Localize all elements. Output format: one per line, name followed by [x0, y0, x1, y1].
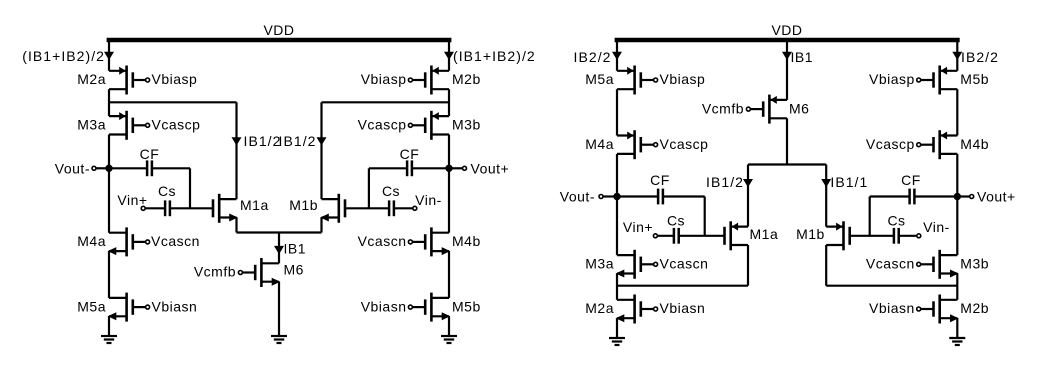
svg-text:M6: M6: [789, 100, 809, 116]
svg-text:M1b: M1b: [289, 197, 318, 213]
svg-text:Vcascp: Vcascp: [358, 117, 407, 133]
svg-text:Vbiasp: Vbiasp: [869, 71, 915, 87]
svg-text:(IB1+IB2)/2: (IB1+IB2)/2: [453, 48, 536, 64]
svg-text:CF: CF: [400, 146, 420, 162]
svg-text:M6: M6: [284, 261, 304, 277]
svg-text:IB1/2: IB1/2: [279, 133, 317, 149]
svg-text:M4a: M4a: [585, 136, 614, 152]
svg-text:Vcascp: Vcascp: [152, 117, 201, 133]
svg-text:M1a: M1a: [240, 197, 269, 213]
svg-text:IB1/2: IB1/2: [706, 174, 744, 190]
svg-text:Cs: Cs: [667, 212, 685, 228]
svg-text:CF: CF: [650, 172, 670, 188]
svg-text:M4a: M4a: [77, 233, 106, 249]
svg-text:Vout+: Vout+: [471, 160, 510, 176]
svg-text:Cs: Cs: [158, 183, 176, 199]
svg-text:Vcascp: Vcascp: [660, 136, 709, 152]
svg-text:Vbiasn: Vbiasn: [361, 298, 407, 314]
svg-text:M1b: M1b: [796, 226, 825, 242]
svg-text:Vcmfb: Vcmfb: [702, 100, 744, 116]
svg-text:Vin+: Vin+: [623, 219, 653, 235]
svg-text:Vout-: Vout-: [560, 189, 595, 205]
svg-text:IB1: IB1: [791, 49, 814, 65]
svg-text:Vcascn: Vcascn: [866, 256, 915, 272]
svg-text:Vbiasn: Vbiasn: [869, 300, 915, 316]
svg-text:Vin-: Vin-: [415, 192, 442, 208]
svg-text:M5b: M5b: [960, 71, 989, 87]
svg-text:M3b: M3b: [960, 256, 989, 272]
svg-text:M5a: M5a: [585, 71, 614, 87]
svg-text:M5a: M5a: [77, 298, 106, 314]
svg-text:Vin-: Vin-: [923, 219, 950, 235]
svg-text:M4b: M4b: [452, 233, 481, 249]
svg-text:Cs: Cs: [887, 212, 905, 228]
svg-text:M5b: M5b: [452, 298, 481, 314]
svg-text:Cs: Cs: [382, 183, 400, 199]
svg-text:M2b: M2b: [452, 71, 481, 87]
svg-text:M1a: M1a: [750, 226, 779, 242]
svg-text:Vbiasp: Vbiasp: [660, 71, 706, 87]
svg-text:M2a: M2a: [77, 71, 106, 87]
svg-text:IB2/2: IB2/2: [574, 49, 612, 65]
svg-text:M3b: M3b: [452, 117, 481, 133]
svg-text:M3a: M3a: [585, 256, 614, 272]
svg-text:VDD: VDD: [263, 22, 294, 38]
svg-text:Vin+: Vin+: [117, 192, 147, 208]
svg-text:(IB1+IB2)/2: (IB1+IB2)/2: [22, 48, 105, 64]
svg-text:Vout+: Vout+: [977, 189, 1016, 205]
svg-text:Vcascn: Vcascn: [660, 256, 709, 272]
svg-text:M3a: M3a: [77, 117, 106, 133]
svg-text:Vcmfb: Vcmfb: [194, 264, 236, 280]
svg-text:IB2/2: IB2/2: [961, 49, 999, 65]
svg-text:Vbiasp: Vbiasp: [152, 71, 198, 87]
svg-text:Vcascn: Vcascn: [358, 233, 407, 249]
svg-text:Vbiasp: Vbiasp: [361, 71, 407, 87]
svg-text:IB1: IB1: [284, 241, 307, 257]
svg-text:CF: CF: [901, 172, 921, 188]
svg-text:M2a: M2a: [585, 300, 614, 316]
svg-text:Vbiasn: Vbiasn: [660, 300, 706, 316]
svg-text:Vout-: Vout-: [55, 160, 90, 176]
svg-text:Vcascp: Vcascp: [866, 136, 915, 152]
svg-text:IB1/1: IB1/1: [830, 174, 868, 190]
svg-text:M2b: M2b: [960, 300, 989, 316]
svg-text:CF: CF: [140, 146, 160, 162]
svg-text:IB1/2: IB1/2: [244, 133, 282, 149]
svg-text:M4b: M4b: [960, 136, 989, 152]
svg-text:Vcascn: Vcascn: [151, 233, 200, 249]
svg-text:VDD: VDD: [771, 22, 802, 38]
svg-text:Vbiasn: Vbiasn: [152, 298, 198, 314]
